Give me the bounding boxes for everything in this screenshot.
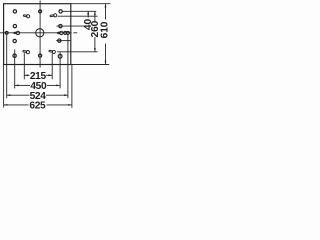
- svg-text:610: 610: [99, 21, 110, 38]
- svg-text:625: 625: [29, 101, 46, 112]
